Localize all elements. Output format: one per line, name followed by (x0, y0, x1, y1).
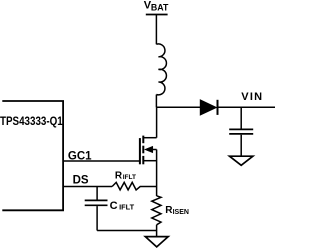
svg-text:IFLT: IFLT (123, 174, 136, 181)
svg-text:ISEN: ISEN (173, 209, 189, 216)
svg-text:DS: DS (73, 175, 89, 187)
svg-text:VIN: VIN (241, 91, 263, 103)
svg-text:TPS43333-Q1: TPS43333-Q1 (0, 115, 63, 128)
svg-text:BAT: BAT (151, 3, 169, 13)
svg-text:IFLT: IFLT (119, 202, 135, 211)
svg-text:GC1: GC1 (68, 150, 92, 162)
svg-text:C: C (110, 200, 118, 212)
svg-text:R: R (115, 170, 123, 181)
